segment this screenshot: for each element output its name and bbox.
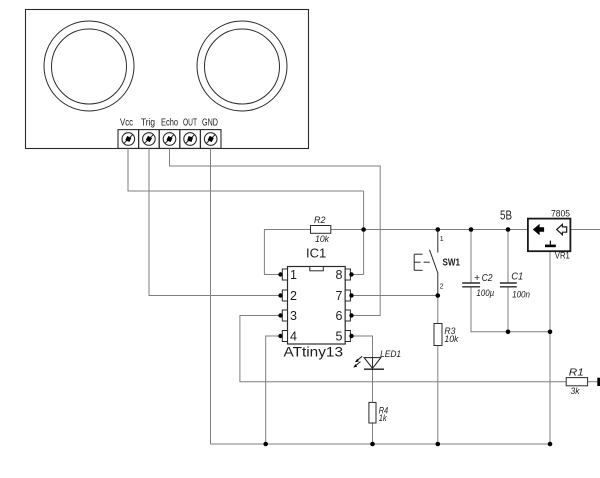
LED1 light arrow a: [355, 356, 362, 362]
svg-text:Trig: Trig: [141, 118, 155, 129]
wire VR1 ground lead down to ground rail: [549, 251, 551, 444]
svg-text:1k: 1k: [379, 413, 388, 424]
wire R1 right lead to edge connector: [588, 381, 598, 383]
pin 3 dot: [278, 313, 282, 317]
right transducer inner circle: [205, 29, 280, 104]
VR1 outline input arrow: [557, 224, 567, 235]
wire pin 3 left, down, right to R1: [240, 316, 566, 382]
svg-text:5B: 5B: [500, 208, 512, 223]
pin 7 dot: [349, 293, 353, 297]
svg-text:3: 3: [290, 309, 297, 323]
svg-text:C1: C1: [511, 272, 523, 283]
svg-text:5: 5: [336, 330, 343, 344]
svg-text:100n: 100n: [512, 290, 530, 301]
node rail/Vcc/pin8: [361, 227, 366, 232]
svg-text:VR1: VR1: [555, 251, 570, 261]
terminal Echo screw: [163, 133, 176, 146]
svg-text:2: 2: [440, 283, 444, 290]
node SW1 top: [436, 227, 441, 232]
resistor R4 body: [369, 402, 376, 423]
svg-text:1: 1: [290, 268, 297, 282]
wire R4 bottom to ground rail: [372, 423, 374, 444]
LED1 anode wire inside symbol: [372, 358, 374, 370]
resistor R3 body: [434, 324, 442, 346]
switch SW1 actuator bracket: [414, 254, 430, 270]
wire GND: sensor GND down to ground rail: [211, 149, 551, 445]
svg-text:ATtiny13: ATtiny13: [284, 344, 344, 360]
resistor R2 body: [311, 226, 331, 234]
terminal Trig screw: [143, 133, 156, 146]
terminal Vcc screw: [122, 133, 135, 146]
switch SW1 lower lead: [437, 274, 439, 296]
svg-text:7805: 7805: [551, 208, 570, 218]
sensor body rectangle: [26, 10, 309, 149]
wire pin 1 to R2 left (reset pull-up): [264, 230, 310, 275]
svg-text:SW1: SW1: [443, 257, 461, 269]
terminal GND screw: [204, 133, 217, 146]
pin 4 dot: [278, 334, 282, 338]
svg-text:C2: C2: [482, 273, 493, 284]
svg-text:1: 1: [440, 236, 444, 243]
pin 1 box: [282, 269, 287, 280]
switch SW1 fixed contact stub: [437, 230, 439, 253]
IC notch mark: [310, 267, 324, 271]
wire R3 bottom to ground rail: [437, 346, 439, 445]
wire R3 top lead: [437, 296, 439, 324]
pin 8 dot: [349, 272, 353, 276]
svg-text:6: 6: [336, 309, 343, 323]
node SW1 bottom / pin7 / R3: [436, 293, 441, 298]
pin 8 box: [345, 269, 350, 280]
svg-text:OUT: OUT: [183, 118, 197, 129]
pin 5 dot: [349, 334, 353, 338]
svg-text:R2: R2: [314, 215, 326, 226]
svg-text:2: 2: [290, 289, 297, 303]
resistor R1 body: [566, 378, 587, 386]
wire Vcc drop to rail and on to pin 8 level: [363, 191, 365, 275]
pin 2 box: [282, 290, 287, 301]
node VR1 gnd / gnd rail: [548, 442, 553, 447]
svg-text:Vcc: Vcc: [120, 118, 133, 129]
pin 6 dot: [349, 313, 353, 317]
svg-text:7: 7: [336, 289, 343, 303]
svg-text:GND: GND: [202, 118, 218, 129]
pin connection dots: [278, 272, 353, 338]
left transducer outer circle: [44, 21, 134, 111]
wire C2 top lead from rail: [470, 230, 472, 284]
svg-text:100µ: 100µ: [476, 288, 494, 299]
pin 7 box: [345, 290, 350, 301]
edge connector stub: [597, 378, 600, 386]
pin 2 dot: [278, 293, 282, 297]
wire C1 top lead from rail: [507, 230, 509, 284]
pin 4 box: [282, 331, 287, 342]
svg-text:+: +: [474, 273, 480, 284]
node pin4 / gnd rail: [263, 442, 268, 447]
node C1 bottom: [506, 330, 511, 335]
terminal block (5 screw terminals): [118, 130, 221, 149]
pin 1 dot: [278, 272, 282, 276]
switch SW1 blade: [430, 250, 439, 274]
svg-text:4: 4: [290, 330, 297, 344]
terminal OUT screw: [184, 133, 197, 146]
regulator VR1 body: [528, 219, 571, 252]
LED1 light arrow b: [353, 362, 360, 368]
svg-text:10k: 10k: [444, 334, 459, 345]
svg-text:R1: R1: [569, 368, 584, 379]
right transducer outer circle: [197, 21, 287, 111]
wire C2 bottom lead and cap ground link: [471, 287, 550, 332]
wire LED cathode to R4: [372, 369, 374, 402]
VR1 filled output arrow: [533, 224, 544, 235]
VR1 ground mark: [545, 245, 556, 248]
node C1 top: [506, 227, 511, 232]
wire Trig: sensor Trig down then right to pin 2: [149, 149, 281, 296]
op-amp/mcu body IC1: [288, 267, 346, 345]
left transducer inner circle: [52, 29, 127, 104]
capacitor C2 plates: [462, 282, 480, 284]
wire Vcc: sensor Vcc down, right, to +5V rail: [128, 149, 364, 192]
svg-text:8: 8: [336, 268, 343, 282]
LED1 cathode bar: [364, 368, 384, 370]
node R4 / gnd rail: [370, 442, 375, 447]
wire +5V rail from R2 to VR1: [331, 229, 528, 231]
wire pin 7 to SW1 node 2: [352, 295, 438, 297]
node R3 / gnd rail: [436, 442, 441, 447]
svg-text:IC1: IC1: [306, 246, 326, 261]
node C2 top: [469, 227, 474, 232]
pin 5 box: [345, 331, 350, 342]
svg-text:LED1: LED1: [380, 349, 401, 360]
wire Echo: sensor Echo down, right, down, to pin 6: [170, 149, 381, 316]
wire pin 4 left and down to ground rail: [266, 336, 281, 444]
LED1 triangle: [364, 358, 381, 369]
wire pin 5 right and down to LED: [352, 336, 373, 369]
svg-text:Echo: Echo: [161, 118, 178, 129]
pin 6 box: [345, 310, 350, 321]
svg-text:10k: 10k: [315, 234, 330, 245]
node cap rail / VR1 gnd: [548, 330, 553, 335]
wire VR1 input from right edge: [570, 229, 600, 231]
wire C1 bottom lead: [507, 287, 509, 332]
wire pin 8 stub to riser: [352, 274, 364, 276]
capacitor C1 plates: [500, 282, 517, 284]
svg-text:3k: 3k: [571, 386, 581, 397]
pin 3 box: [282, 310, 287, 321]
